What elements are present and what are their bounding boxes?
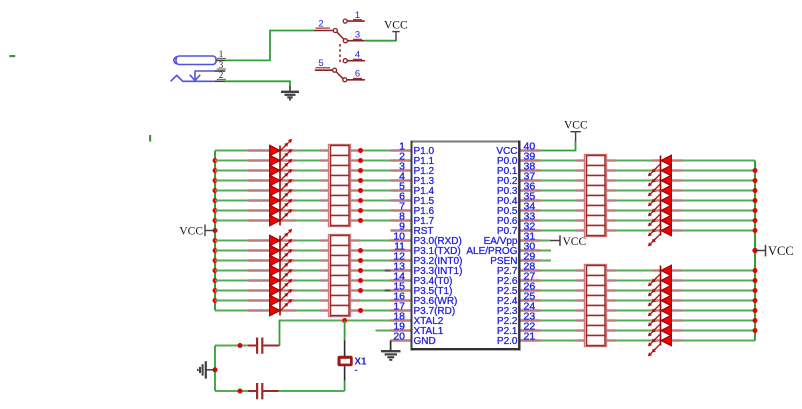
wire J1 pin1 to switch pin2 [225,31,316,61]
pin 13 stub of U1 (P3.3(INT1)) [391,260,411,272]
pin 23 stub of U1 (P2.2) [521,310,541,322]
LED D6 [270,189,293,206]
pin 7 stub of U1 (P1.6) [391,200,411,212]
svg-text:1: 1 [219,49,224,59]
ground (top, below jack) [281,86,299,100]
pin name P3.2(INT0) [414,256,463,267]
LED D4 [270,169,293,186]
switch SW1 pin 2 [315,18,338,32]
LED D16 [270,299,293,316]
wire row pin 34 (right) [541,210,756,212]
pin name P1.7 [414,216,435,227]
pin name RST [414,226,434,237]
pin 21 stub of U1 (P2.0) [521,330,541,342]
wire left anode bus [214,151,216,311]
resistor pack RP3 (right upper) [585,155,607,237]
pin 9 stub of U1 (RST) [391,220,411,232]
wire row pin 35 (right) [541,310,756,312]
junction dots on right bus [752,168,757,333]
pin 40 stub of U1 (VCC) [521,140,541,152]
pin name P2.5 [497,286,518,297]
wire row pin 32 (right) [541,340,756,342]
LED D1 [270,139,293,156]
LED D29 [648,305,672,326]
ground (U1 pin 20) [381,341,401,360]
wire row pin 13 (left) [215,270,391,272]
svg-text:X1: X1 [354,356,367,367]
switch SW1 pin 5 [315,58,337,72]
junction dots on left bus [213,158,218,303]
pin name P1.1 [414,156,435,167]
LED D28 [648,295,672,316]
svg-text:3: 3 [219,60,224,70]
wire row pin 16 (left) [215,300,391,302]
pin 8 stub of U1 (P1.7) [391,210,411,222]
LED D25-D32 cathode rail [660,266,662,346]
pin name P0.2 [497,176,518,187]
LED D15 [270,289,293,306]
svg-text:VCC: VCC [563,236,587,248]
wire row pin 10 (left) [215,240,391,242]
wire row pin 34 (right) [541,320,756,322]
power flag VCC (switch) [384,20,408,41]
wire XTAL1 stub [376,330,391,332]
LED D17-D24 cathode rail [660,156,662,236]
LED D19 [648,175,672,196]
pin 11 stub of U1 (P3.1(TXD)) [391,240,411,252]
pin name P0.4 [497,196,518,207]
wire cap row lower [215,390,345,392]
pin name P3.0(RXD) [414,236,462,247]
pin name XTAL1 [414,326,444,337]
wire crystal top [344,321,346,341]
wire row pin 4 (left) [215,180,391,182]
pin 4 stub of U1 (P1.3) [391,170,411,182]
LED D10 [270,239,293,256]
wire row pin 39 (right) [541,160,756,162]
svg-text:VCC: VCC [768,244,794,258]
wire dark segment row 16 [385,289,391,291]
pin name P3.1(TXD) [414,246,461,257]
pin 18 stub of U1 (XTAL2) [391,310,411,322]
LED D22 [648,205,672,226]
wire row pin 35 (right) [541,200,756,202]
svg-text:VCC: VCC [179,225,203,237]
switch SW1 pin 4 [343,50,365,63]
LED D31 [648,325,672,346]
J1 tip-switch contact arm [190,71,200,81]
pin 27 stub of U1 (P2.6) [521,270,541,282]
wire row pin 11 (left) [215,250,391,252]
LED D12 [270,259,293,276]
wire stub (stray green mark left edge) [9,55,15,57]
connector J1 barrel [174,56,216,65]
pin 5 stub of U1 (P1.4) [391,180,411,192]
pin 22 stub of U1 (P2.1) [521,320,541,332]
wire right anode bus [754,161,756,341]
LED D9 [270,229,293,246]
pin name P1.4 [414,186,435,197]
LED D23 [648,215,672,236]
pin name P1.0 [414,146,435,157]
pin name P2.2 [497,316,518,327]
LED D7 [270,199,293,216]
LED D26 [648,275,672,296]
pin name VCC [496,146,517,157]
LED D27 [648,285,672,306]
pin name P2.3 [497,306,518,317]
pin name P3.7(RD) [414,306,456,317]
LED D18 [648,165,672,186]
svg-text:VCC: VCC [564,120,588,132]
pin name GND [414,336,436,347]
pin 36 stub of U1 (P0.3) [521,180,541,192]
wire row pin 15 (left) [215,290,391,292]
wire dark segment row 14 [385,269,391,271]
pin 39 stub of U1 (P0.0) [521,150,541,162]
junction dot C2 [238,389,243,394]
capacitor C1 [257,338,262,354]
pin 1 stub of U1 (P1.0) [391,140,411,152]
wire row pin 36 (right) [541,190,756,192]
wire row pin 33 (right) [541,330,756,332]
LED D3 [270,159,293,176]
svg-text:20: 20 [393,330,405,342]
wire row pin 5 (left) [215,190,391,192]
svg-text:GND: GND [414,336,436,347]
pin 38 stub of U1 (P0.1) [521,160,541,172]
LED D24 [648,225,672,246]
pin name P0.7 [497,226,518,237]
LED D8 [270,209,293,226]
pin name P3.5(T1) [414,286,453,297]
wire row pin 37 (right) [541,290,756,292]
pin 2 stub of U1 (P1.1) [391,150,411,162]
svg-text:VCC: VCC [384,20,408,32]
pin name P1.6 [414,206,435,217]
pin name EA/Vpp [484,236,518,247]
junction dots at left resistor pack outputs [358,148,363,313]
pin name P1.3 [414,176,435,187]
pin name P2.1 [497,326,518,337]
wire row pin 14 (left) [215,280,391,282]
junction dot C1 [238,343,243,348]
svg-text:21: 21 [524,330,536,342]
pin 10 stub of U1 (P3.0(RXD)) [391,230,411,242]
wire XTAL2 row [280,320,391,346]
pin 1 of J1 [216,49,226,60]
pin name PSEN [490,256,517,267]
switch SW1 lever upper [337,32,344,39]
power flag VCC (right bus) [755,244,794,258]
wire row pin 2 (left) [215,160,391,162]
pin 37 stub of U1 (P0.2) [521,170,541,182]
ground (crystal circuit) [198,361,215,378]
pin name P0.6 [497,216,518,227]
wire row pin 33 (right) [541,220,756,222]
LED D32 [648,335,672,356]
pin 3 stub of U1 (P1.2) [391,160,411,172]
wire U1 pin29 PSEN stub [541,260,552,262]
pin 6 stub of U1 (P1.5) [391,190,411,202]
resistor pack RP4 (right lower) [585,265,607,347]
pin name ALE/PROG [466,246,517,257]
op-amp U1 8051 MCU body [411,141,521,351]
pin 31 stub of U1 (EA/Vpp) [521,230,541,242]
LED D20 [648,185,672,206]
wire switch pin3 to VCC [365,40,397,42]
pin 29 stub of U1 (PSEN) [521,250,541,262]
LED D17 [648,155,672,176]
pin name P0.1 [497,166,518,177]
wire J1 pin2 to ground [225,81,290,87]
wire row pin 39 (right) [541,270,756,272]
LED D11 [270,249,293,266]
LED D14 [270,279,293,296]
pin 28 stub of U1 (P2.7) [521,260,541,272]
wire U1 pin31 EA to VCC [541,240,551,242]
LED D30 [648,315,672,336]
pin 14 stub of U1 (P3.4(T0)) [391,270,411,282]
LED D2 [270,149,293,166]
pin name P2.4 [497,296,518,307]
pin 20 stub of U1 (GND) [391,330,411,342]
wire row pin 8 (left) [215,220,391,222]
power flag VCC (pin 40) [564,120,588,142]
pin name P2.7 [497,266,518,277]
pin 34 stub of U1 (P0.5) [521,200,541,212]
power flag VCC (left bus) [179,225,215,238]
pin 15 stub of U1 (P3.5(T1)) [391,280,411,292]
pin name P1.5 [414,196,435,207]
switch SW1 lever lower [336,72,343,79]
pin name P3.3(INT1) [414,266,463,277]
pin 16 stub of U1 (P3.6(WR)) [391,290,411,302]
pin 17 stub of U1 (P3.7(RD)) [391,300,411,312]
switch SW1 pin 3 [343,30,364,43]
pin name XTAL2 [414,316,444,327]
pin 32 stub of U1 (P0.7) [521,220,541,232]
resistor pack RP2 (left lower) [329,235,351,317]
wire stub (stray green tick) [149,135,151,142]
wire left cap bus [214,346,216,392]
pin name P0.3 [497,186,518,197]
pin name P2.6 [497,276,518,287]
pin 19 stub of U1 (XTAL1) [391,320,411,332]
pin name P0.0 [497,156,518,167]
switch SW1 pin 6 [343,69,365,82]
pin 12 stub of U1 (P3.2(INT0)) [391,250,411,262]
wire row pin 17 (left) [215,310,391,312]
svg-text:P2.0: P2.0 [497,336,518,347]
wire U1 pin30 ALE stub [541,250,552,252]
pin 26 stub of U1 (P2.5) [521,280,541,292]
wire row pin 37 (right) [541,180,756,182]
capacitor C2 [257,383,262,399]
switch SW1 pin 1 [343,10,365,23]
pin 3 of J1 [195,60,226,71]
wire row pin 38 (right) [541,170,756,172]
pin name P0.5 [497,206,518,217]
wire U1 pin40 to VCC [541,141,576,151]
svg-text:2: 2 [219,70,224,80]
wire cap row upper [215,345,280,347]
pin name P3.4(T0) [414,276,453,287]
wire row pin 3 (left) [215,170,391,172]
wire row pin 12 (left) [215,260,391,262]
switch SW1 linkage (dashed) [339,44,341,62]
crystal X1 [338,340,368,380]
wire row pin 7 (left) [215,210,391,212]
wire crystal bottom [344,381,346,391]
pin name P2.0 [497,336,518,347]
pin 30 stub of U1 (ALE/PROG) [521,240,541,252]
LED D13 [270,269,293,286]
pin 33 stub of U1 (P0.6) [521,210,541,222]
wire row pin 1 (left) [215,150,391,152]
junction dot ground tap [213,367,218,372]
LED D25 [648,265,672,286]
wire row pin 6 (left) [215,200,391,202]
LED D1-D8 cathode rail [279,146,281,226]
wire row pin 32 (right) [541,230,756,232]
pin name P3.6(WR) [414,296,458,307]
LED D21 [648,195,672,216]
resistor pack RP1 (left upper) [329,145,351,227]
junction dot XTAL2/crystal [342,318,347,323]
pin name P1.2 [414,166,435,177]
pin 24 stub of U1 (P2.3) [521,300,541,312]
wire row pin 36 (right) [541,300,756,302]
LED D9-D16 cathode rail [279,236,281,316]
power flag VCC (EA pin) [550,235,586,248]
LED D5 [270,179,293,196]
pin 35 stub of U1 (P0.4) [521,190,541,202]
wire row pin 38 (right) [541,280,756,282]
pin 25 stub of U1 (P2.4) [521,290,541,302]
pin 2 of J1 (sleeve zigzag) [171,70,226,81]
